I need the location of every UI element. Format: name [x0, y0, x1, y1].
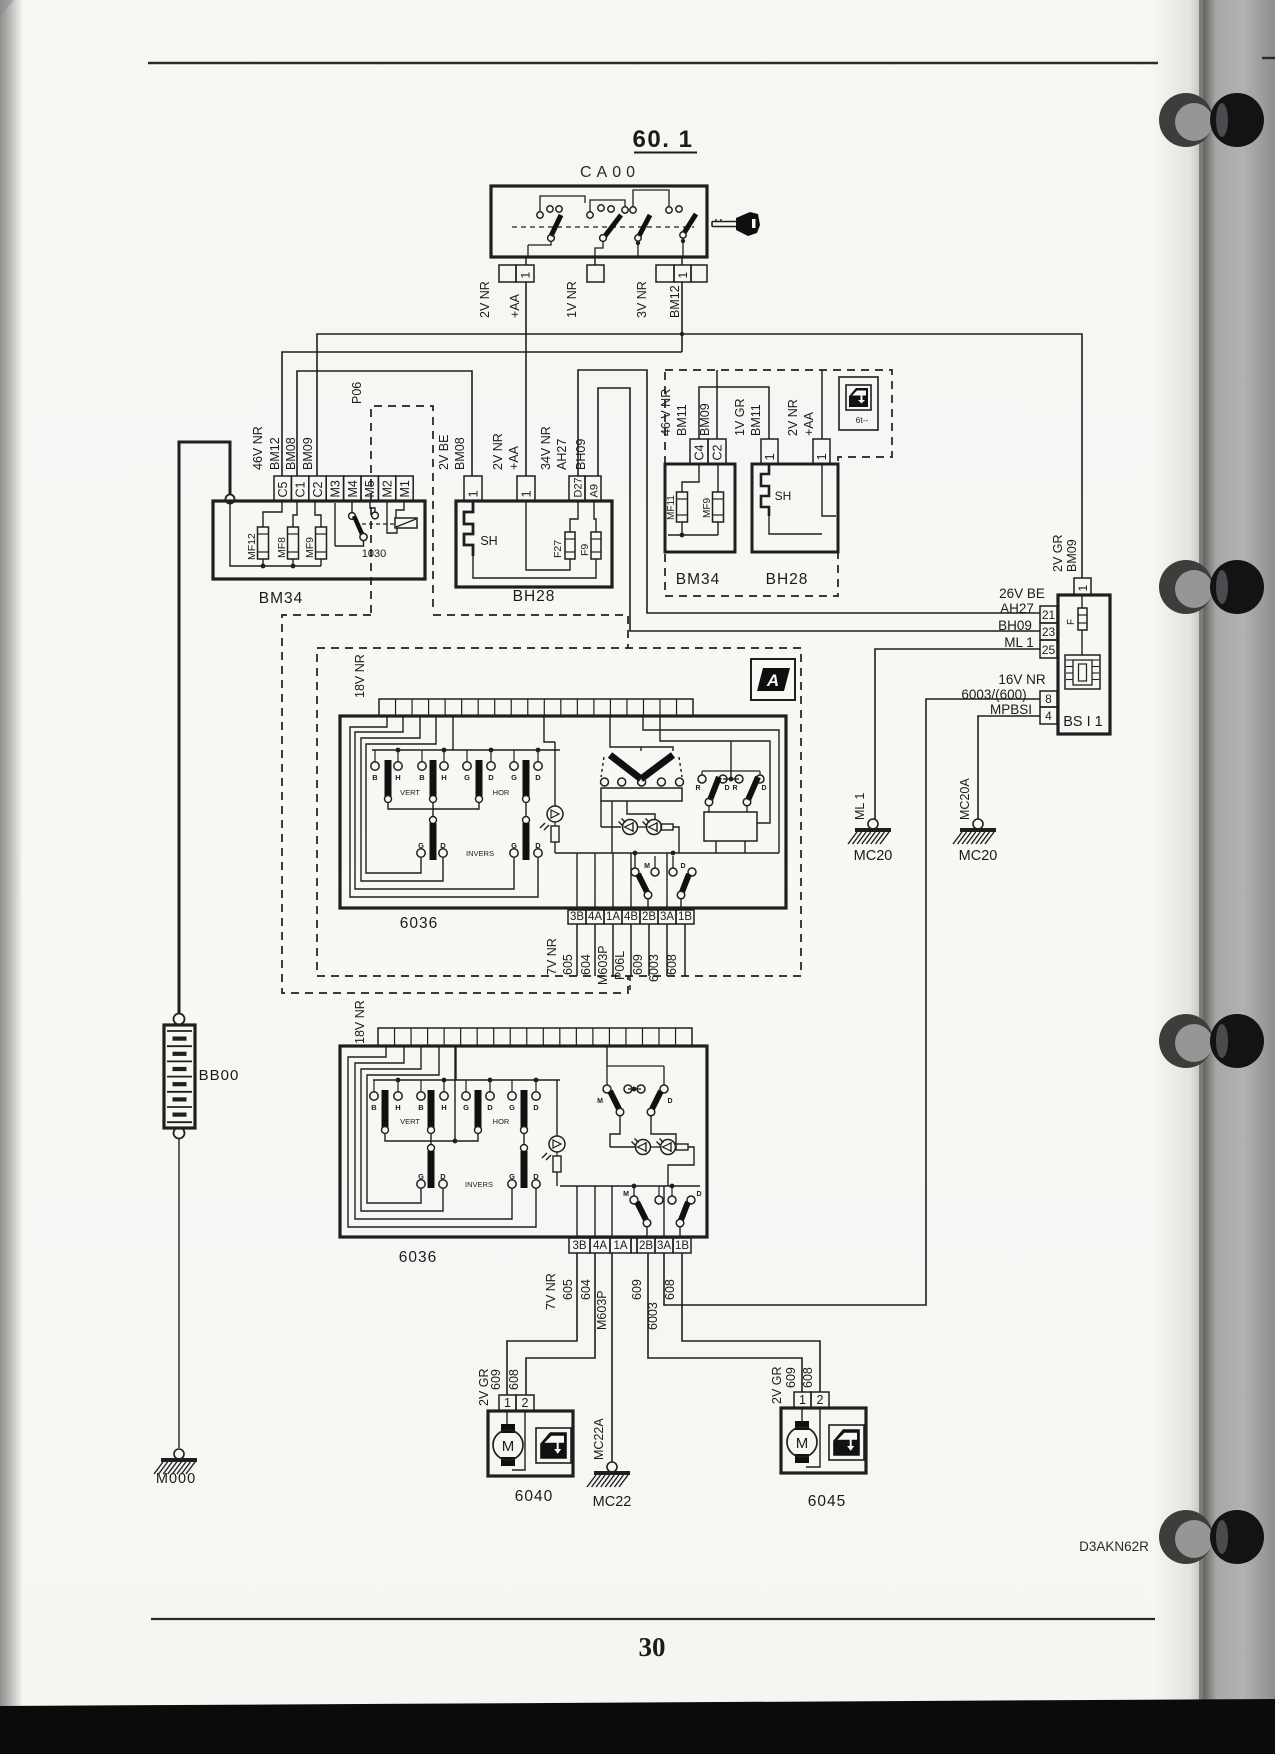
CA00 internal dashed axis [512, 226, 694, 228]
motor 6040 box [488, 1411, 573, 1476]
INVERS rockers [430, 817, 437, 824]
svg-text:INVERS: INVERS [465, 1180, 493, 1189]
ground MC20 right [973, 819, 983, 829]
motor 6040 pins 1 2 [499, 1395, 516, 1411]
BS11 processor symbol [1065, 655, 1100, 689]
svg-text:AH27: AH27 [555, 439, 569, 470]
svg-text:BM12: BM12 [668, 285, 682, 318]
svg-text:608: 608 [663, 1279, 677, 1300]
V switch contacts [601, 778, 609, 786]
svg-text:21: 21 [1042, 608, 1056, 622]
svg-text:46V NR: 46V NR [251, 426, 265, 470]
svg-text:SH: SH [775, 489, 792, 503]
relay box BH28 second [752, 464, 838, 552]
svg-text:1B: 1B [675, 1240, 689, 1252]
relay rectangle [704, 812, 757, 841]
svg-text:H: H [441, 1103, 446, 1112]
svg-text:4B: 4B [624, 911, 638, 923]
svg-text:CA00: CA00 [580, 164, 640, 181]
rocker V switch [610, 755, 641, 779]
svg-text:BH28: BH28 [513, 588, 556, 605]
wire AH27 from BH28 D27 to BSI pin21 [578, 370, 1040, 613]
connector pin 1 BM11 [761, 439, 778, 464]
rocker bars rear [382, 1090, 389, 1128]
svg-text:3V NR: 3V NR [635, 281, 649, 318]
svg-text:605: 605 [561, 1279, 575, 1300]
fuse F27 [565, 532, 575, 559]
INVERS rockers rear [428, 1145, 435, 1152]
fuse MF12 [258, 527, 269, 559]
svg-text:1B: 1B [678, 911, 692, 923]
svg-text:1030: 1030 [362, 548, 386, 560]
dashed assembly outline [665, 370, 892, 596]
svg-text:MC20: MC20 [854, 848, 893, 864]
wire +AA stub [821, 370, 823, 439]
svg-text:D: D [724, 785, 729, 792]
wire +AA from CA00 to BH28 [525, 282, 527, 476]
svg-text:4A: 4A [593, 1240, 607, 1252]
svg-text:F: F [1066, 619, 1077, 625]
CA00 connector 3V NR / BM12 [656, 265, 674, 282]
left scan edge strip [0, 0, 22, 1754]
svg-text:2: 2 [522, 1396, 529, 1410]
svg-text:D3AKN62R: D3AKN62R [1079, 1539, 1149, 1554]
svg-text:BM34: BM34 [259, 590, 304, 607]
svg-text:1: 1 [1076, 585, 1090, 592]
svg-text:608: 608 [507, 1369, 521, 1390]
svg-text:D: D [533, 1172, 539, 1181]
wire 609 to motor 6045 pin1 [648, 1253, 802, 1392]
svg-text:A: A [766, 671, 779, 690]
svg-text:MC22: MC22 [593, 1494, 632, 1510]
wire MPBSI from BSI pin4 to ground [978, 716, 1040, 819]
motor 6045 pins 1 2 [794, 1392, 811, 1408]
svg-text:B: B [418, 1103, 424, 1112]
bottom rule [151, 1618, 1155, 1620]
svg-text:D27: D27 [573, 477, 585, 497]
bottom M D switches rear [560, 1185, 700, 1187]
svg-text:6036: 6036 [400, 915, 438, 932]
svg-text:SH: SH [480, 534, 497, 548]
svg-text:1: 1 [762, 453, 777, 460]
svg-text:D: D [535, 773, 541, 782]
svg-text:BM09: BM09 [698, 403, 712, 436]
svg-text:M: M [597, 1098, 603, 1105]
connector row bottom front [568, 910, 586, 924]
bottom collector bus [555, 852, 779, 854]
svg-text:G: G [418, 1172, 424, 1181]
svg-text:C2: C2 [311, 481, 325, 497]
svg-text:D: D [535, 841, 541, 850]
BM34 internal wires [263, 501, 282, 527]
svg-text:C5: C5 [276, 481, 290, 497]
svg-text:6045: 6045 [808, 1493, 846, 1510]
switch block wires [611, 801, 613, 853]
svg-text:609: 609 [489, 1369, 503, 1390]
wire battery to ground M000 [178, 1139, 180, 1448]
svg-text:VERT: VERT [400, 1117, 420, 1126]
svg-text:H: H [395, 1103, 400, 1112]
svg-text:604: 604 [579, 1279, 593, 1300]
svg-text:R: R [695, 785, 700, 792]
bar links [432, 802, 434, 820]
svg-text:D: D [487, 1103, 493, 1112]
svg-text:3A: 3A [660, 911, 674, 923]
svg-text:M603P: M603P [595, 1290, 609, 1330]
svg-text:D: D [761, 785, 766, 792]
svg-text:C4: C4 [693, 444, 707, 460]
wire BM08 net [297, 371, 472, 476]
svg-text:608: 608 [801, 1367, 815, 1388]
BH28 internal wires [526, 501, 570, 570]
svg-text:G: G [511, 841, 517, 850]
relay 1030 coil [395, 518, 417, 528]
svg-text:G: G [509, 1172, 515, 1181]
switch contacts rear row [370, 1092, 378, 1100]
svg-text:A9: A9 [589, 484, 601, 497]
svg-text:1A: 1A [606, 911, 620, 923]
right switch feeds [723, 778, 739, 780]
svg-text:BS I 1: BS I 1 [1063, 714, 1103, 730]
connector pin 1 +AA [517, 476, 535, 501]
CA00 connector 1V NR [587, 265, 604, 282]
svg-text:B: B [371, 1103, 377, 1112]
svg-text:BM11: BM11 [749, 404, 763, 436]
svg-text:1: 1 [676, 272, 690, 279]
svg-text:BH09: BH09 [998, 618, 1032, 633]
V switch base [601, 788, 682, 801]
wire 6003/(600) from BSI pin8 to rear console [664, 699, 1040, 1305]
relay 1030 mechanical link [362, 523, 394, 525]
lamps with resistor [600, 801, 602, 827]
wire BH09 from BH28 A9 to BSI pin23 [598, 388, 1040, 631]
svg-text:2V NR: 2V NR [491, 433, 505, 470]
svg-text:P06: P06 [350, 382, 364, 404]
fuse F in BS11 [1081, 595, 1083, 608]
BSI pin 1 box [1074, 578, 1091, 595]
LED rear with resistor [549, 1136, 565, 1152]
icon A box [751, 659, 795, 700]
svg-text:BM09: BM09 [1065, 539, 1079, 572]
wire BM12 from CA00 [681, 282, 683, 352]
CA00 switch contacts group 4 [666, 207, 672, 213]
svg-text:60. 1: 60. 1 [633, 126, 694, 153]
svg-text:609: 609 [630, 1279, 644, 1300]
ignition switch CA00 box [491, 186, 707, 257]
svg-text:MF9: MF9 [702, 498, 713, 518]
connector row rear top [378, 1028, 692, 1046]
svg-text:F27: F27 [552, 540, 564, 558]
wire stubs to rear [576, 924, 578, 976]
CA00 switch contacts group 3 [622, 207, 628, 213]
wire 608 to motor 6045 pin2 [682, 1253, 820, 1392]
svg-text:609: 609 [631, 954, 645, 975]
wire BM12 horizontal to BM34 C5 [282, 352, 682, 476]
svg-text:HOR: HOR [493, 1117, 510, 1126]
bottom M D switches [634, 853, 636, 868]
CA00 internal wires [528, 241, 551, 245]
switch contacts front row [371, 762, 379, 770]
ground MC22 [607, 1462, 617, 1472]
CA00 switch contacts group 2 [587, 212, 593, 218]
terminal node on BM34 [226, 495, 235, 504]
motor 6040 M symbol [501, 1424, 515, 1433]
svg-text:M: M [644, 863, 650, 870]
svg-text:30: 30 [639, 1632, 666, 1662]
svg-text:BM08: BM08 [284, 437, 298, 470]
binder holes [1159, 93, 1213, 147]
svg-text:H: H [441, 773, 446, 782]
svg-text:1V GR: 1V GR [733, 398, 747, 436]
inner dashed option box [317, 648, 801, 976]
svg-text:D: D [440, 1172, 446, 1181]
binder strip [1203, 0, 1275, 1754]
svg-text:C2: C2 [711, 444, 725, 460]
svg-text:MC20: MC20 [959, 848, 998, 864]
connector pins D27 A9 [569, 476, 585, 501]
fuse MF8 [288, 527, 299, 559]
connector pins BM34 C5 C1 C2 M3 M4 M5 M2 M1 [274, 476, 291, 501]
fuse box BM34 [213, 501, 425, 579]
wire ML1 from BSI pin25 to ground [875, 649, 1040, 820]
wire 604 to motor 6040 pin2 [526, 1253, 595, 1395]
svg-text:M: M [796, 1435, 809, 1452]
svg-text:8: 8 [1045, 692, 1052, 706]
svg-text:+AA: +AA [802, 411, 816, 436]
bar links rear [430, 1133, 432, 1148]
svg-text:BM08: BM08 [453, 437, 467, 470]
connector pin 1 +AA [813, 439, 830, 464]
svg-text:26V BE: 26V BE [999, 586, 1045, 601]
battery BB00 [174, 1014, 185, 1025]
BSI pins 8 4 [1040, 691, 1057, 707]
svg-text:VERT: VERT [400, 788, 420, 797]
svg-text:MC20A: MC20A [958, 778, 972, 820]
svg-text:7V NR: 7V NR [544, 1273, 558, 1310]
connector pin 1 BM08 [464, 476, 482, 501]
CA00 switch contacts group 1 [537, 212, 543, 218]
svg-text:C1: C1 [294, 481, 308, 497]
ground MC20 left [868, 819, 878, 829]
wire M603P to ground MC22 [611, 1253, 613, 1462]
ground M000 [174, 1449, 184, 1459]
svg-text:B: B [372, 773, 378, 782]
svg-text:609: 609 [784, 1367, 798, 1388]
svg-text:2B: 2B [639, 1240, 653, 1252]
svg-text:2V GR: 2V GR [1051, 534, 1065, 572]
svg-text:2V BE: 2V BE [437, 435, 451, 470]
svg-text:G: G [511, 773, 517, 782]
svg-text:D: D [440, 841, 446, 850]
CA00 connector stubs [525, 257, 527, 265]
shunt SH second [761, 464, 769, 516]
svg-text:1V NR: 1V NR [565, 281, 579, 318]
svg-text:6036: 6036 [399, 1249, 437, 1266]
right page edge shadow [1150, 0, 1203, 1754]
relay outputs [715, 841, 717, 853]
wire BM09 stub [716, 370, 718, 439]
option icon box [839, 377, 878, 430]
svg-text:16V NR: 16V NR [998, 672, 1046, 687]
svg-text:D: D [488, 773, 494, 782]
svg-text:34V NR: 34V NR [539, 426, 553, 470]
svg-text:7V NR: 7V NR [545, 938, 559, 975]
svg-text:ML 1: ML 1 [1004, 635, 1034, 650]
svg-text:BM12: BM12 [268, 437, 282, 470]
svg-text:4: 4 [1045, 709, 1052, 723]
svg-text:M2: M2 [381, 480, 395, 497]
shunt SH [464, 501, 473, 556]
fuse MF11 [677, 492, 688, 522]
svg-text:B: B [419, 773, 425, 782]
svg-text:6003: 6003 [647, 954, 661, 982]
svg-text:604: 604 [579, 954, 593, 975]
svg-text:2B: 2B [642, 911, 656, 923]
dashed P06L continuation [629, 976, 631, 993]
rocker bars VERT/HOR [385, 760, 392, 797]
relay 1030 aux contact [370, 501, 375, 512]
svg-text:D: D [696, 1191, 701, 1198]
wire BM11 link [699, 387, 769, 439]
wire BM09 net horizontal [317, 334, 1082, 578]
svg-text:M: M [623, 1191, 629, 1198]
svg-text:+AA: +AA [508, 293, 522, 318]
relay 1030 switch [334, 503, 336, 546]
svg-text:HOR: HOR [493, 788, 510, 797]
svg-text:M603P: M603P [596, 945, 610, 985]
right nested wires [643, 716, 779, 853]
control unit BS11 box [1058, 595, 1110, 734]
svg-text:3B: 3B [570, 911, 584, 923]
LED with resistor [547, 806, 563, 822]
feed bus [372, 749, 560, 751]
dashed P06 route box [371, 406, 433, 613]
svg-text:M4: M4 [346, 480, 360, 497]
BSI pins 21 23 25 [1040, 606, 1057, 623]
svg-text:G: G [509, 1103, 515, 1112]
svg-text:23: 23 [1042, 625, 1056, 639]
ignition key symbol [712, 221, 737, 223]
svg-text:M1: M1 [398, 480, 412, 497]
svg-text:BH09: BH09 [574, 439, 588, 470]
fuse box BM34 second [665, 464, 735, 552]
svg-text:ML 1: ML 1 [853, 793, 867, 820]
svg-text:MF12: MF12 [246, 533, 258, 560]
svg-text:2V NR: 2V NR [478, 281, 492, 318]
motor 6045 M symbol [795, 1421, 809, 1430]
svg-text:BM11: BM11 [675, 404, 689, 436]
svg-text:AH27: AH27 [1000, 601, 1034, 616]
wire 605 to motor 6040 pin1 [507, 1253, 577, 1395]
svg-text:R: R [732, 785, 737, 792]
connector pins C4 C2 [690, 439, 708, 464]
svg-text:MF11: MF11 [666, 495, 677, 520]
svg-text:D: D [667, 1098, 672, 1105]
battery supply wire BB00 to BM34 [179, 442, 230, 1013]
svg-text:6t--: 6t-- [856, 415, 869, 425]
svg-text:18V NR: 18V NR [353, 654, 367, 698]
switch unit 6036 front box [340, 716, 786, 908]
svg-text:6040: 6040 [515, 1488, 553, 1505]
svg-text:MF8: MF8 [276, 537, 288, 558]
lamps rear [610, 1146, 635, 1148]
BH28 second internal wires [769, 516, 822, 534]
top rule [148, 62, 1158, 64]
rear internal drops [576, 1186, 578, 1238]
svg-text:1: 1 [519, 490, 534, 497]
svg-text:P06L: P06L [613, 951, 627, 980]
right switches R D [698, 775, 706, 783]
svg-text:G: G [464, 773, 470, 782]
fuse box BH28 [456, 501, 612, 587]
switch unit 6036 rear box [340, 1046, 707, 1237]
svg-text:H: H [395, 773, 400, 782]
svg-text:+AA: +AA [507, 445, 521, 470]
svg-text:6003/(600): 6003/(600) [961, 687, 1026, 702]
svg-text:MPBSI: MPBSI [990, 702, 1032, 717]
connector row 18V NR [379, 699, 693, 716]
outer dashed option box [282, 615, 628, 993]
svg-text:2: 2 [817, 1393, 824, 1407]
svg-text:608: 608 [665, 954, 679, 975]
svg-text:F9: F9 [579, 544, 591, 556]
nested harness wires [350, 716, 538, 897]
svg-text:M: M [502, 1438, 515, 1455]
svg-text:2V GR: 2V GR [770, 1366, 784, 1404]
motor 6045 box [781, 1408, 866, 1473]
svg-text:1A: 1A [613, 1240, 627, 1252]
svg-text:605: 605 [561, 954, 575, 975]
svg-text:BM34: BM34 [676, 571, 721, 588]
svg-text:M000: M000 [156, 1471, 196, 1487]
svg-text:1: 1 [519, 272, 533, 279]
svg-text:D: D [680, 863, 685, 870]
fuse F9 [591, 532, 601, 559]
V switch feeds [610, 716, 673, 751]
svg-text:25: 25 [1042, 643, 1056, 657]
svg-text:INVERS: INVERS [466, 849, 494, 858]
svg-text:1: 1 [814, 453, 829, 460]
svg-text:4A: 4A [588, 911, 602, 923]
fuse MF9 [713, 492, 724, 522]
window lifter icon 6040 [536, 1428, 571, 1463]
svg-text:3B: 3B [572, 1240, 586, 1252]
CA00 connector 2V NR [499, 265, 516, 282]
svg-text:MF9: MF9 [304, 537, 316, 558]
svg-text:46 V NR: 46 V NR [659, 389, 673, 436]
svg-text:1: 1 [799, 1393, 806, 1407]
BM34 second internal wires [682, 464, 699, 492]
svg-text:2V NR: 2V NR [786, 399, 800, 436]
fuse MF9 [316, 527, 327, 559]
nested harness wires rear [348, 1046, 536, 1227]
feed bus rear [373, 1079, 560, 1081]
window lifter icon 6045 [829, 1425, 864, 1460]
svg-text:G: G [463, 1103, 469, 1112]
rear top M D switches [606, 1046, 608, 1066]
svg-text:BM09: BM09 [301, 437, 315, 470]
svg-text:BB00: BB00 [199, 1067, 240, 1084]
svg-text:BH28: BH28 [766, 571, 809, 588]
svg-text:18V NR: 18V NR [353, 1000, 367, 1044]
svg-text:3A: 3A [657, 1240, 671, 1252]
top-left corner shadow [0, 0, 14, 16]
svg-text:G: G [418, 841, 424, 850]
svg-text:1: 1 [466, 490, 481, 497]
bottom black scan bar [0, 1699, 1275, 1754]
svg-text:D: D [533, 1103, 539, 1112]
svg-text:M3: M3 [328, 480, 342, 497]
